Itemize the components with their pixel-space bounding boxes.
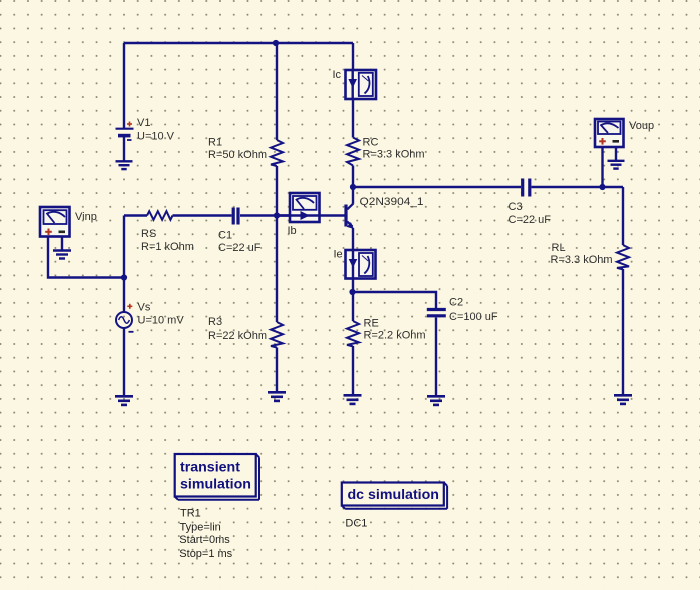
svg-text:Vinp: Vinp [75,211,97,223]
svg-text:RC: RC [363,137,379,149]
V1 minus mark [127,139,132,141]
node base junction [274,212,280,218]
svg-text:C=100 uF: C=100 uF [449,311,498,323]
svg-text:simulation: simulation [180,477,251,493]
svg-text:R=22 kOhm: R=22 kOhm [208,330,267,342]
svg-text:Ic: Ic [333,69,342,81]
wire V1 to ground [123,136,125,161]
ammeter probe Ic [346,70,377,99]
V1 plus mark [127,122,132,127]
wire RC to collector node [352,166,354,188]
wire top rail to Ic probe [352,43,354,70]
capacitor C3 [523,179,530,197]
svg-text:C1: C1 [218,229,232,241]
resistor RS [147,211,173,220]
transient simulation block [175,454,259,500]
ground (Vs) [115,396,133,405]
wire collector node to C3 [353,186,521,188]
node collector junction [350,184,356,190]
wire base node to Ib probe / base [277,214,345,216]
ground (C2) [427,396,445,405]
wire emitter node to RE [352,292,354,321]
wire Voup plus lead [601,147,603,187]
svg-text:R=3.3 kOhm: R=3.3 kOhm [551,254,613,266]
svg-text:C=22 uF: C=22 uF [509,214,552,226]
wire V1 top lead [123,43,125,128]
svg-text:Q2N3904_1: Q2N3904_1 [360,196,424,208]
wire Vinp minus lead [61,237,63,251]
ground (V1) [116,161,133,169]
node input junction [121,274,127,280]
svg-text:TR1: TR1 [180,508,201,520]
svg-text:Vs: Vs [138,302,151,314]
resistor R3 [271,322,283,348]
TR1 properties [179,508,232,561]
wire emitter node to C2 [353,292,436,308]
capacitor C1 [233,208,238,225]
svg-text:transient: transient [180,460,240,476]
Vs plus mark [127,304,132,309]
ground (Voup) [608,161,625,169]
wire RE to ground [352,346,354,395]
wire output corner down to RL [622,187,624,245]
svg-text:RL: RL [552,242,566,254]
wire RS to C1 [173,214,232,216]
svg-text:RS: RS [141,228,156,240]
ground (Vinp) [53,251,71,259]
Ic arrow [348,79,357,88]
wire Vs to ground [123,328,125,396]
wire Ic probe through [352,70,354,99]
Vinp minus mark [59,231,66,234]
wire Voup minus lead [615,147,617,161]
node output junction [599,184,605,190]
svg-text:Ib: Ib [288,225,297,237]
capacitor C2 [427,310,446,316]
wire C2 to ground [435,318,437,397]
svg-text:C=22 uF: C=22 uF [218,242,261,254]
dc simulation block [342,483,447,509]
svg-text:Stop=1 ms: Stop=1 ms [179,548,232,560]
ground (RE) [344,395,362,404]
wire Ie to emitter node [352,279,354,293]
svg-text:dc simulation: dc simulation [348,487,439,503]
svg-text:C2: C2 [449,297,463,309]
Vs minus mark [129,331,134,333]
Ie arrow [349,259,358,268]
wire R3 to ground [276,348,278,393]
svg-text:R=3.3 kOhm: R=3.3 kOhm [363,149,425,161]
wire Vinp plus lead [48,237,124,278]
ground (RL) [614,395,632,404]
svg-text:R=2.2 kOhm: R=2.2 kOhm [364,330,426,342]
wire node to R3 [276,216,278,323]
node emitter junction [349,289,355,295]
svg-text:RE: RE [364,318,379,330]
svg-text:Voup: Voup [629,120,654,132]
svg-text:R1: R1 [208,137,222,149]
ground (R3) [268,392,286,401]
svg-text:C3: C3 [509,201,523,213]
Ib arrow [301,211,310,220]
node top rail junction [273,40,279,46]
svg-text:R3: R3 [208,316,222,328]
wire Ie probe through [352,250,354,279]
resistor RL [617,245,629,269]
wire input column vertical [123,216,125,313]
source Vs [116,312,132,328]
Vinp plus mark [45,229,52,236]
battery V1 [116,129,134,136]
svg-text:U=10 V: U=10 V [137,130,175,142]
wire R1 top [276,43,278,140]
svg-text:R=50 kOhm: R=50 kOhm [208,149,267,161]
svg-text:Ie: Ie [334,249,343,261]
ammeter probe Ib [290,193,320,222]
resistor R1 [271,140,283,166]
wire emitter lead [352,228,354,250]
wire collector lead [352,187,354,204]
svg-text:U=10 mV: U=10 mV [138,315,185,327]
voltmeter Voup [595,119,624,147]
wire Ic to RC [352,99,354,138]
wire top rail [124,42,353,44]
ammeter probe Ie [346,250,376,279]
voltmeter Vinp [40,207,70,237]
Q1 emitter arrow [347,222,354,229]
resistor RC [347,138,359,166]
transistor Q2N3904_1 [346,204,353,227]
wire R1 bottom to node [276,166,278,216]
wire C3 to output node [532,186,624,188]
Voup minus mark [613,140,620,143]
svg-text:V1: V1 [137,117,150,129]
svg-text:DC1: DC1 [345,518,367,530]
svg-text:Start=0ms: Start=0ms [179,534,230,546]
svg-text:Type=lin: Type=lin [180,521,221,533]
Voup plus mark [599,138,606,145]
svg-text:R=1 kOhm: R=1 kOhm [141,241,194,253]
wire RL to ground [622,269,624,396]
wire input to RS [124,214,147,216]
resistor RE [347,321,359,346]
wire C1 to base node [240,214,290,216]
